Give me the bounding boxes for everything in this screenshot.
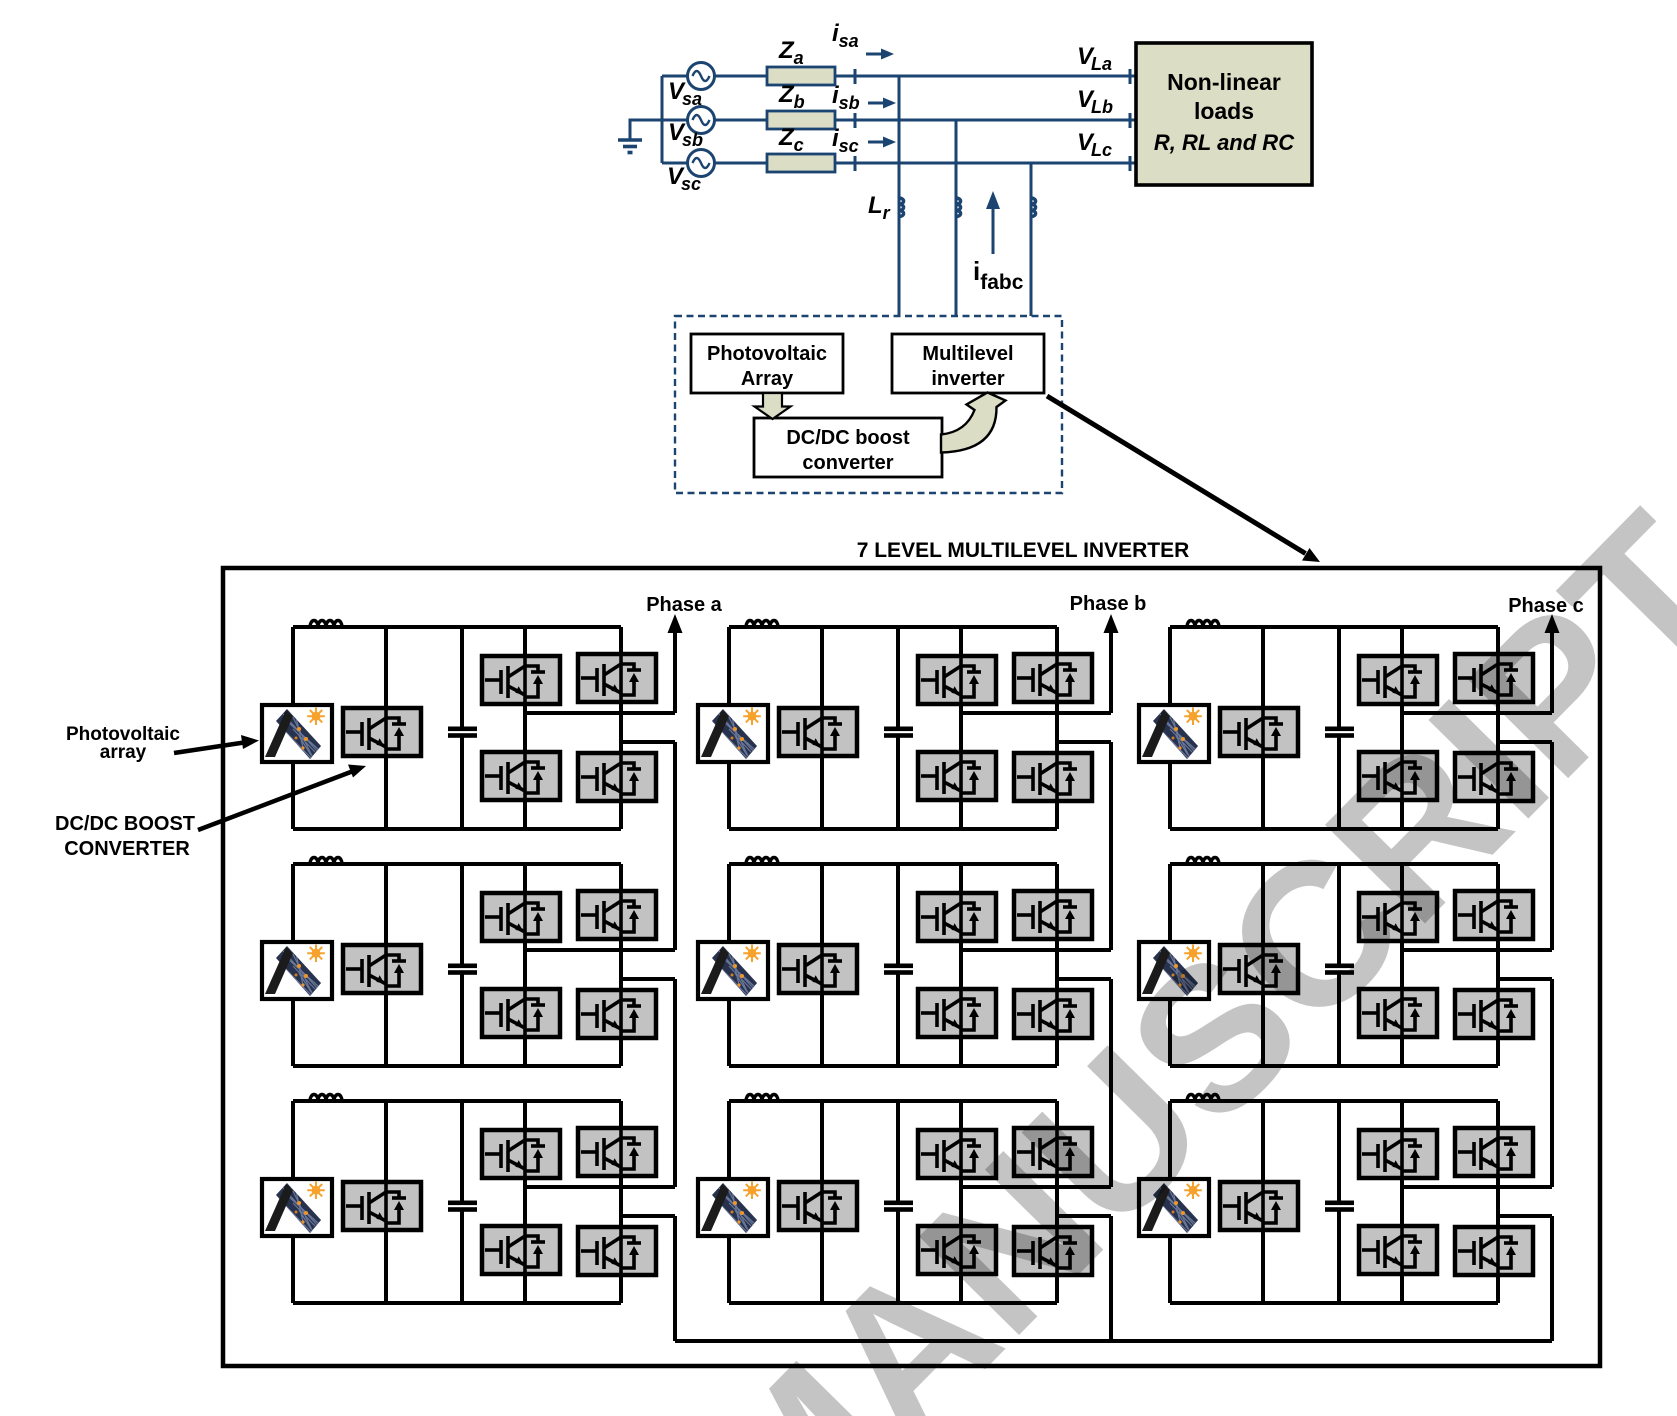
svg-text:Lr: Lr: [868, 192, 891, 223]
inverter feeder wire c: [1030, 163, 1033, 316]
zoom callout arrow: [1047, 396, 1306, 554]
svg-text:Non-linear: Non-linear: [1167, 69, 1281, 95]
phase a wire impedance-to-load: [715, 75, 1137, 78]
phase c output wire: [1550, 629, 1554, 713]
current arrow isc: [868, 141, 886, 144]
cell phase a module 3: [262, 1095, 675, 1304]
AC source Vsb: [688, 107, 715, 134]
source bus wire: [661, 76, 664, 163]
svg-text:Multilevel: Multilevel: [922, 343, 1013, 365]
svg-text:Array: Array: [741, 368, 794, 390]
svg-text:VLa: VLa: [1077, 43, 1112, 74]
phase c series wire 2-3: [1550, 979, 1554, 1187]
filter current arrow ifabc: [992, 208, 995, 254]
curved block arrow boost-to-inverter: [941, 393, 1006, 453]
filter inductor La: [899, 198, 904, 217]
phase b output wire: [1109, 629, 1113, 713]
svg-text:Phase b: Phase b: [1070, 593, 1147, 615]
svg-text:ifabc: ifabc: [973, 256, 1024, 294]
node tick VLc: [1129, 156, 1132, 171]
svg-text:VLb: VLb: [1077, 86, 1113, 117]
svg-text:7 LEVEL MULTILEVEL INVERTER: 7 LEVEL MULTILEVEL INVERTER: [857, 539, 1190, 562]
cell phase a module 1: [262, 621, 675, 830]
inverter feeder wire b: [955, 120, 958, 316]
node tick isc: [854, 156, 857, 171]
inverter feeder wire a: [898, 76, 901, 316]
svg-text:isb: isb: [832, 82, 860, 113]
impedance Zb: [767, 111, 835, 129]
impedance Za: [767, 67, 835, 85]
svg-text:R, RL and RC: R, RL and RC: [1154, 130, 1295, 155]
svg-text:Phase a: Phase a: [646, 594, 722, 616]
dc/dc boost converter block: [754, 418, 942, 477]
phase b wire source-to-impedance: [662, 119, 687, 122]
phase c wire impedance-to-load: [715, 162, 1137, 165]
svg-text:isa: isa: [832, 20, 859, 51]
node tick isb: [854, 113, 857, 128]
phase b series wire 2-3: [1109, 979, 1113, 1187]
ground symbol: [618, 140, 642, 153]
cell phase c module 2: [1139, 858, 1552, 1067]
phase a series wire 2-3: [673, 979, 677, 1187]
svg-text:converter: converter: [802, 452, 893, 474]
svg-text:DC/DC BOOST: DC/DC BOOST: [55, 813, 195, 835]
phase c series wire 1-2: [1550, 742, 1554, 950]
callout arrow to boost module: [198, 772, 352, 831]
AC source Vsc: [688, 150, 715, 177]
cell phase a module 2: [262, 858, 675, 1067]
pv system dashed box: [675, 316, 1062, 493]
svg-text:Za: Za: [778, 37, 804, 68]
svg-text:Photovoltaic: Photovoltaic: [707, 343, 827, 365]
cell phase b module 1: [698, 621, 1111, 830]
svg-text:isc: isc: [832, 125, 859, 156]
svg-text:CONVERTER: CONVERTER: [64, 838, 190, 860]
phase b arrowhead: [1104, 614, 1119, 633]
phase a series wire 1-2: [673, 742, 677, 950]
node tick isa: [854, 69, 857, 84]
cell phase b module 3: [698, 1095, 1111, 1304]
phase a arrowhead: [668, 614, 683, 633]
phase c series wire 3-neutral: [1550, 1216, 1554, 1341]
svg-text:array: array: [100, 742, 147, 763]
svg-text:DC/DC boost: DC/DC boost: [786, 427, 910, 449]
current arrow isa: [866, 53, 884, 56]
cell phase c module 1: [1139, 621, 1552, 830]
current arrow isb: [868, 102, 886, 105]
phase b series wire 3-neutral: [1109, 1216, 1113, 1341]
callout arrow to PV module: [174, 743, 244, 754]
phase a wire source-to-impedance: [662, 75, 687, 78]
svg-text:VLc: VLc: [1077, 129, 1112, 160]
phase a output wire: [673, 629, 677, 713]
filter inductor Lb: [956, 198, 961, 217]
phase c arrowhead: [1545, 614, 1560, 633]
phase a series wire 3-neutral: [673, 1216, 677, 1341]
AC source Vsa: [688, 63, 715, 90]
neutral bus wire: [675, 1339, 1552, 1343]
node tick VLb: [1129, 113, 1132, 128]
impedance Zc: [767, 154, 835, 172]
filter inductor Lc: [1031, 198, 1036, 217]
svg-text:inverter: inverter: [931, 368, 1005, 390]
ground stub wire: [630, 120, 662, 139]
phase c wire source-to-impedance: [662, 162, 687, 165]
svg-text:loads: loads: [1194, 98, 1254, 124]
phase b series wire 1-2: [1109, 742, 1113, 950]
phase b wire impedance-to-load: [715, 119, 1137, 122]
node tick VLa: [1129, 69, 1132, 84]
inverter outer box: [223, 568, 1600, 1366]
multilevel inverter block: [892, 334, 1044, 393]
photovoltaic array block: [691, 334, 843, 393]
non-linear loads box: [1136, 43, 1312, 185]
block arrow PV-to-boost: [755, 393, 791, 419]
cell phase b module 2: [698, 858, 1111, 1067]
cell phase c module 3: [1139, 1095, 1552, 1304]
